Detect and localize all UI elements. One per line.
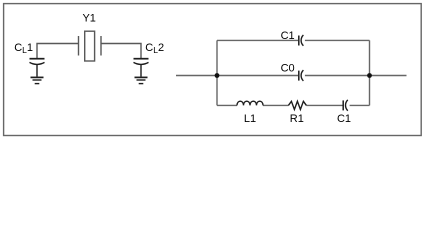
- svg-text:C0: C0: [281, 62, 295, 74]
- svg-text:CL2: CL2: [145, 42, 164, 55]
- svg-text:C1: C1: [337, 113, 351, 125]
- svg-text:Y1: Y1: [82, 13, 95, 25]
- svg-text:R1: R1: [290, 113, 304, 125]
- svg-text:C1: C1: [281, 30, 295, 42]
- svg-text:CL1: CL1: [14, 42, 33, 55]
- svg-text:L1: L1: [244, 113, 256, 125]
